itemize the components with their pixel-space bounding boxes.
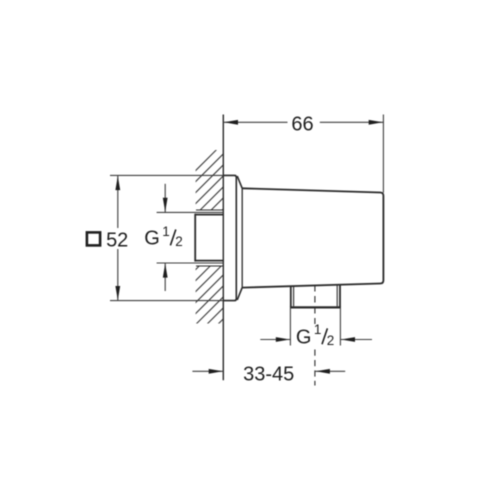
dimension 52 extension bottom: [110, 300, 236, 302]
outlet pipe: [290, 286, 292, 307]
wall hatching: [180, 136, 230, 373]
body outline: [242, 188, 383, 287]
flange plate: [223, 175, 236, 300]
svg-text:66: 66: [291, 113, 313, 135]
arrow 52 bottom: [115, 286, 120, 300]
body base line: [241, 188, 243, 287]
dimension 52 line: [117, 175, 119, 228]
dimension 66 line: [223, 121, 287, 123]
dimension 33-45: [192, 370, 223, 372]
G1/2 left dimension extension lines: [157, 211, 224, 213]
center dashed line: [314, 285, 316, 324]
arrow 66 right: [369, 120, 383, 125]
svg-text:G: G: [296, 327, 312, 349]
svg-text:2: 2: [175, 234, 183, 249]
svg-text:1: 1: [162, 224, 170, 239]
svg-text:G: G: [144, 228, 160, 250]
chamfer top: [237, 176, 242, 188]
arrow 52 top: [115, 176, 120, 190]
dimension 66 extension line right: [382, 115, 384, 193]
G1/2 bottom arrows: [260, 339, 290, 341]
chamfer bottom: [237, 288, 242, 300]
arrow 66 left: [224, 120, 238, 125]
thread tube behind wall: [196, 209, 223, 211]
dimension 52 extension top: [110, 174, 236, 176]
wall line: [222, 115, 224, 381]
svg-text:1: 1: [314, 322, 322, 337]
svg-text:2: 2: [327, 333, 335, 348]
pipe extension lines: [289, 309, 291, 346]
svg-text:52: 52: [106, 230, 128, 252]
G1/2 left arrows: [164, 184, 166, 213]
square symbol: [87, 232, 100, 245]
svg-text:33-45: 33-45: [243, 364, 294, 386]
